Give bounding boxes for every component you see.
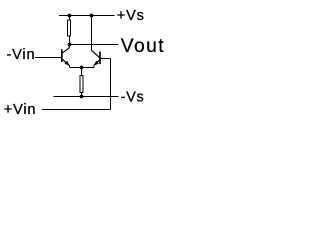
node emitter junction dot: [80, 66, 84, 70]
transistor Q1 emitter: [62, 59, 69, 66]
svg-text:-Vin: -Vin: [7, 47, 36, 63]
wire Q2 base feedback vertical: [110, 59, 112, 110]
wire Q2 collector vertical: [91, 16, 93, 51]
node junction bottom of R2: [80, 95, 84, 99]
wire +Vin bottom line: [42, 109, 110, 111]
net label -Vs: [121, 89, 145, 105]
svg-text:Vout: Vout: [121, 36, 165, 57]
net label -Vin: [7, 47, 36, 63]
net label +Vin: [4, 102, 37, 118]
transistor Q1 base bar: [61, 49, 63, 62]
svg-text:-Vs: -Vs: [121, 89, 145, 105]
wire R2 top lead: [81, 68, 83, 77]
transistor Q2 emitter: [94, 60, 100, 65]
wire +Vs top rail: [59, 15, 114, 17]
wire Q2 emitter drop: [93, 65, 95, 67]
wire Q1 emitter drop: [69, 65, 71, 67]
node junction top of R1: [68, 14, 72, 18]
wire R1 top lead: [69, 16, 71, 21]
transistor Q1 emitter arrow: [65, 61, 70, 66]
resistor R2 body: [80, 76, 83, 93]
wire R1 bottom lead: [69, 36, 71, 45]
transistor Q2 collector: [91, 50, 99, 58]
wire Vout output line: [70, 44, 119, 46]
node junction top of Q2 collector: [90, 14, 94, 18]
svg-text:+Vs: +Vs: [117, 8, 145, 24]
transistor Q2 base bar: [99, 52, 101, 65]
net label Vout: [121, 36, 165, 57]
wire -Vs line: [54, 96, 119, 98]
transistor Q1 collector: [62, 45, 69, 54]
net label +Vs: [117, 8, 145, 24]
wire Q2 base lead: [100, 58, 111, 60]
wire emitter bus: [70, 67, 95, 69]
resistor R1 body: [68, 20, 71, 36]
wire Q1 base lead from -Vin: [35, 57, 61, 59]
wire R2 bottom lead: [81, 93, 83, 97]
node Vout junction dot: [68, 43, 72, 47]
transistor Q2 emitter arrow: [94, 61, 99, 66]
svg-text:+Vin: +Vin: [4, 102, 37, 118]
